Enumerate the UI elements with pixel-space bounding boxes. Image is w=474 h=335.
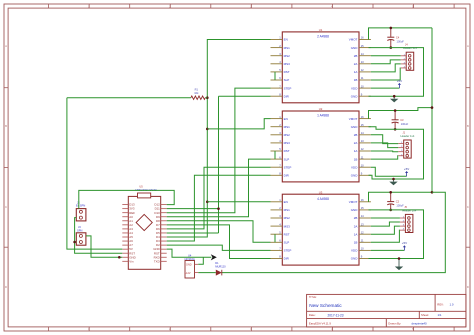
wire +12V distribution vertical (431, 28, 434, 194)
svg-text:Date:: Date: (309, 313, 316, 317)
svg-text:B: B (467, 125, 469, 128)
svg-text:despierta40: despierta40 (412, 322, 427, 326)
svg-text:MS1: MS1 (284, 125, 291, 129)
svg-text:12: 12 (361, 68, 364, 72)
svg-text:12: 12 (361, 147, 364, 151)
wire VMOT 2 rail (+12V) (369, 192, 433, 202)
svg-text:DIR: DIR (284, 173, 290, 177)
svg-text:EN: EN (284, 117, 288, 121)
svg-text:14: 14 (361, 131, 364, 135)
wire VMOT 4 rail (+12V) (369, 28, 433, 40)
svg-text:GND: GND (351, 173, 359, 177)
svg-text:16: 16 (361, 36, 364, 40)
svg-text:MS2: MS2 (284, 54, 291, 58)
svg-text:10k: 10k (194, 91, 199, 95)
resistor R1 10k (191, 87, 205, 99)
diode D1 MUR120 (215, 261, 226, 276)
header J3 (SPN) (76, 225, 86, 245)
ground symbol (395, 257, 403, 270)
svg-text:EasyEDA V4.11.9: EasyEDA V4.11.9 (309, 322, 331, 326)
wire D12 to J2 pin1 (79, 190, 174, 208)
svg-text:2A: 2A (354, 141, 358, 145)
svg-text:1B: 1B (354, 78, 358, 82)
wire D10 to U1.STEP (167, 88, 271, 213)
wire U1 RST-SLP tie (274, 72, 276, 80)
svg-text:U1: U1 (319, 28, 323, 32)
wire J3 pin1 to GND (86, 236, 122, 259)
svg-text:SLP: SLP (284, 157, 290, 161)
wire U3 RST-SLP tie (274, 234, 276, 242)
svg-text:C2: C2 (396, 200, 400, 204)
svg-text:100uF: 100uF (396, 204, 404, 208)
svg-text:VDD: VDD (351, 86, 358, 90)
svg-text:4 A4988: 4 A4988 (317, 197, 329, 201)
wire EN net trunk (R1 - U1.EN - U2.EN - U3.EN - D4) (167, 40, 271, 238)
header J5 Header 1x4 (400, 206, 417, 233)
wire D11 to U1.DIR (167, 96, 271, 233)
svg-text:13: 13 (361, 222, 364, 226)
ground symbol (389, 178, 397, 186)
connector U4 12V@2A (184, 254, 198, 278)
wire U4 GND to +12V flag stem (198, 257, 203, 264)
svg-text:GND: GND (351, 94, 359, 98)
svg-text:MS3: MS3 (284, 141, 291, 145)
title block (307, 294, 466, 327)
stepper driver module U3 (4 A4988) (271, 190, 371, 265)
wire +12V feed from D1 up right side (221, 192, 445, 272)
svg-text:Vin: Vin (129, 259, 134, 263)
stepper driver module U1 (2 A4988) (271, 28, 371, 103)
svg-text:10: 10 (361, 163, 364, 167)
svg-text:STEP: STEP (284, 249, 292, 253)
svg-text:RST: RST (284, 232, 290, 236)
svg-text:GND: GND (351, 257, 359, 261)
svg-text:D: D (467, 286, 469, 289)
svg-text:16: 16 (361, 115, 364, 119)
wire D7 to U3.DIR (167, 225, 271, 259)
svg-text:1B: 1B (354, 157, 358, 161)
svg-text:SLP: SLP (284, 78, 290, 82)
svg-text:GND: GND (351, 46, 359, 50)
svg-text:STEP: STEP (284, 86, 292, 90)
capacitor C4 100uF (387, 27, 404, 49)
svg-text:New Schematic: New Schematic (309, 303, 342, 308)
svg-text:C4: C4 (396, 35, 400, 39)
wire D8 to U3.SLP (167, 221, 271, 243)
svg-text:2 A4988: 2 A4988 (317, 35, 329, 39)
wire arduino GND right to +12V flag (167, 249, 212, 257)
svg-text:1A: 1A (354, 149, 358, 153)
svg-text:1/1: 1/1 (438, 313, 442, 317)
svg-text:VDD: VDD (351, 249, 358, 253)
header J4 Header 1x4 (401, 44, 418, 71)
wire GND rail of 3 block (369, 127, 424, 179)
power flag +5V (371, 241, 407, 250)
wire D5 stub to riser (167, 232, 219, 234)
svg-text:MS1: MS1 (284, 46, 291, 50)
wires motor outputs 2B 2A 1A 1B to J4 (371, 56, 401, 80)
svg-text:2B: 2B (354, 133, 358, 137)
svg-text:VMOT: VMOT (349, 200, 358, 204)
svg-text:C3: C3 (400, 118, 404, 122)
svg-text:MS3: MS3 (284, 62, 291, 66)
wire +5V trunk down to arduino 5V (67, 98, 122, 249)
svg-text:VMOT: VMOT (349, 38, 358, 42)
svg-text:C: C (5, 206, 7, 209)
svg-text:STEP: STEP (284, 165, 292, 169)
svg-text:DIR: DIR (284, 257, 290, 261)
svg-text:+5V: +5V (397, 79, 402, 83)
power flag +12V arrow (211, 254, 217, 260)
wire D3 to U2.DIR (167, 175, 271, 241)
svg-text:+5V: +5V (402, 241, 407, 245)
ground symbol (390, 95, 398, 103)
svg-text:16: 16 (361, 198, 364, 202)
svg-text:10: 10 (361, 84, 364, 88)
svg-text:1 A4988: 1 A4988 (317, 114, 329, 118)
wire EN branch to U3.EN (207, 201, 270, 203)
svg-text:EN: EN (284, 200, 288, 204)
svg-text:1B: 1B (354, 240, 358, 244)
svg-text:13: 13 (361, 139, 364, 143)
wire U4 +12V to D1 anode (198, 272, 216, 274)
svg-text:2B: 2B (354, 216, 358, 220)
svg-text:Header 1x4: Header 1x4 (403, 46, 417, 50)
svg-text:1.0: 1.0 (450, 303, 454, 307)
svg-text:SLP: SLP (284, 240, 290, 244)
svg-text:DIR: DIR (284, 94, 290, 98)
svg-text:+12V: +12V (185, 272, 191, 275)
svg-text:14: 14 (361, 52, 364, 56)
svg-text:VDD: VDD (351, 165, 358, 169)
svg-text:SPN: SPN (77, 228, 82, 232)
svg-text:2B: 2B (354, 54, 358, 58)
svg-text:100uF: 100uF (401, 122, 409, 126)
svg-text:RST: RST (284, 149, 290, 153)
svg-text:1A: 1A (354, 70, 358, 74)
wire D2 to U3.STEP (167, 245, 271, 250)
svg-text:EN: EN (284, 38, 288, 42)
svg-text:R1: R1 (195, 87, 199, 91)
capacitor C2 100uF (387, 191, 404, 211)
svg-text:2A: 2A (354, 62, 358, 66)
svg-text:En SPN: En SPN (76, 204, 85, 208)
wire EN branch to U2.EN (207, 119, 270, 129)
svg-text:MUR120: MUR120 (215, 264, 226, 268)
svg-text:10: 10 (361, 247, 364, 251)
svg-text:A: A (467, 45, 469, 48)
svg-text:100uF: 100uF (397, 39, 405, 43)
power flag +5V (371, 79, 402, 88)
svg-text:12: 12 (361, 230, 364, 234)
svg-text:B: B (5, 125, 7, 128)
svg-text:A: A (5, 45, 7, 48)
wire R1 left to +5V trunk (67, 97, 191, 99)
stepper driver module U2 (1 A4988) (271, 107, 371, 182)
svg-text:14: 14 (361, 214, 364, 218)
svg-text:TITLE:: TITLE: (309, 295, 317, 299)
svg-text:D: D (5, 286, 7, 289)
svg-text:15: 15 (361, 206, 364, 210)
wires motor outputs 2B 2A 1A 1B to J5 (371, 218, 400, 242)
svg-text:MS2: MS2 (284, 133, 291, 137)
svg-text:2017-11-23: 2017-11-23 (328, 313, 344, 317)
svg-text:GND: GND (186, 264, 192, 267)
svg-text:Drawn By:: Drawn By: (388, 322, 401, 326)
svg-text:+5V: +5V (404, 167, 409, 171)
svg-text:MS1: MS1 (284, 208, 291, 212)
svg-text:2A: 2A (354, 224, 358, 228)
svg-text:RST: RST (284, 70, 290, 74)
svg-text:U2: U2 (319, 107, 323, 111)
svg-text:U3: U3 (319, 190, 323, 194)
header J2 (En SPN) (76, 200, 86, 221)
svg-text:13: 13 (361, 60, 364, 64)
wire U2 RST-SLP tie (274, 151, 276, 159)
svg-text:15: 15 (361, 44, 364, 48)
wire D6 to U2.STEP (167, 167, 271, 229)
svg-text:VMOT: VMOT (349, 117, 358, 121)
svg-text:MS3: MS3 (284, 224, 291, 228)
wires motor outputs 2B 2A 1A 1B to J1 (371, 135, 398, 159)
wire VMOT 3 rail (+12V) (369, 108, 433, 119)
svg-text:Header 1x4: Header 1x4 (401, 134, 415, 138)
arduino nano U5 (122, 184, 166, 269)
wire GND rail of 2 block (369, 210, 424, 259)
capacitor C3 100uF (392, 109, 409, 130)
svg-text:C: C (467, 206, 469, 209)
wire GND rail of 4 block (369, 48, 424, 97)
svg-text:MS2: MS2 (284, 216, 291, 220)
svg-text:GND: GND (351, 208, 359, 212)
svg-text:TXD: TXD (154, 259, 160, 263)
svg-text:Header 1x4: Header 1x4 (402, 208, 416, 212)
svg-text:Sheet:: Sheet: (421, 313, 429, 317)
svg-text:REV:: REV: (437, 303, 444, 307)
svg-text:GND: GND (351, 125, 359, 129)
wire J2 pin2 to RST (and J3 pin2) (73, 218, 122, 254)
svg-text:15: 15 (361, 123, 364, 127)
header J1 Header 1x4 (398, 132, 415, 159)
power flag +5V (371, 167, 409, 176)
wire D9 to U2.SLP (167, 159, 271, 217)
svg-text:1A: 1A (354, 232, 358, 236)
